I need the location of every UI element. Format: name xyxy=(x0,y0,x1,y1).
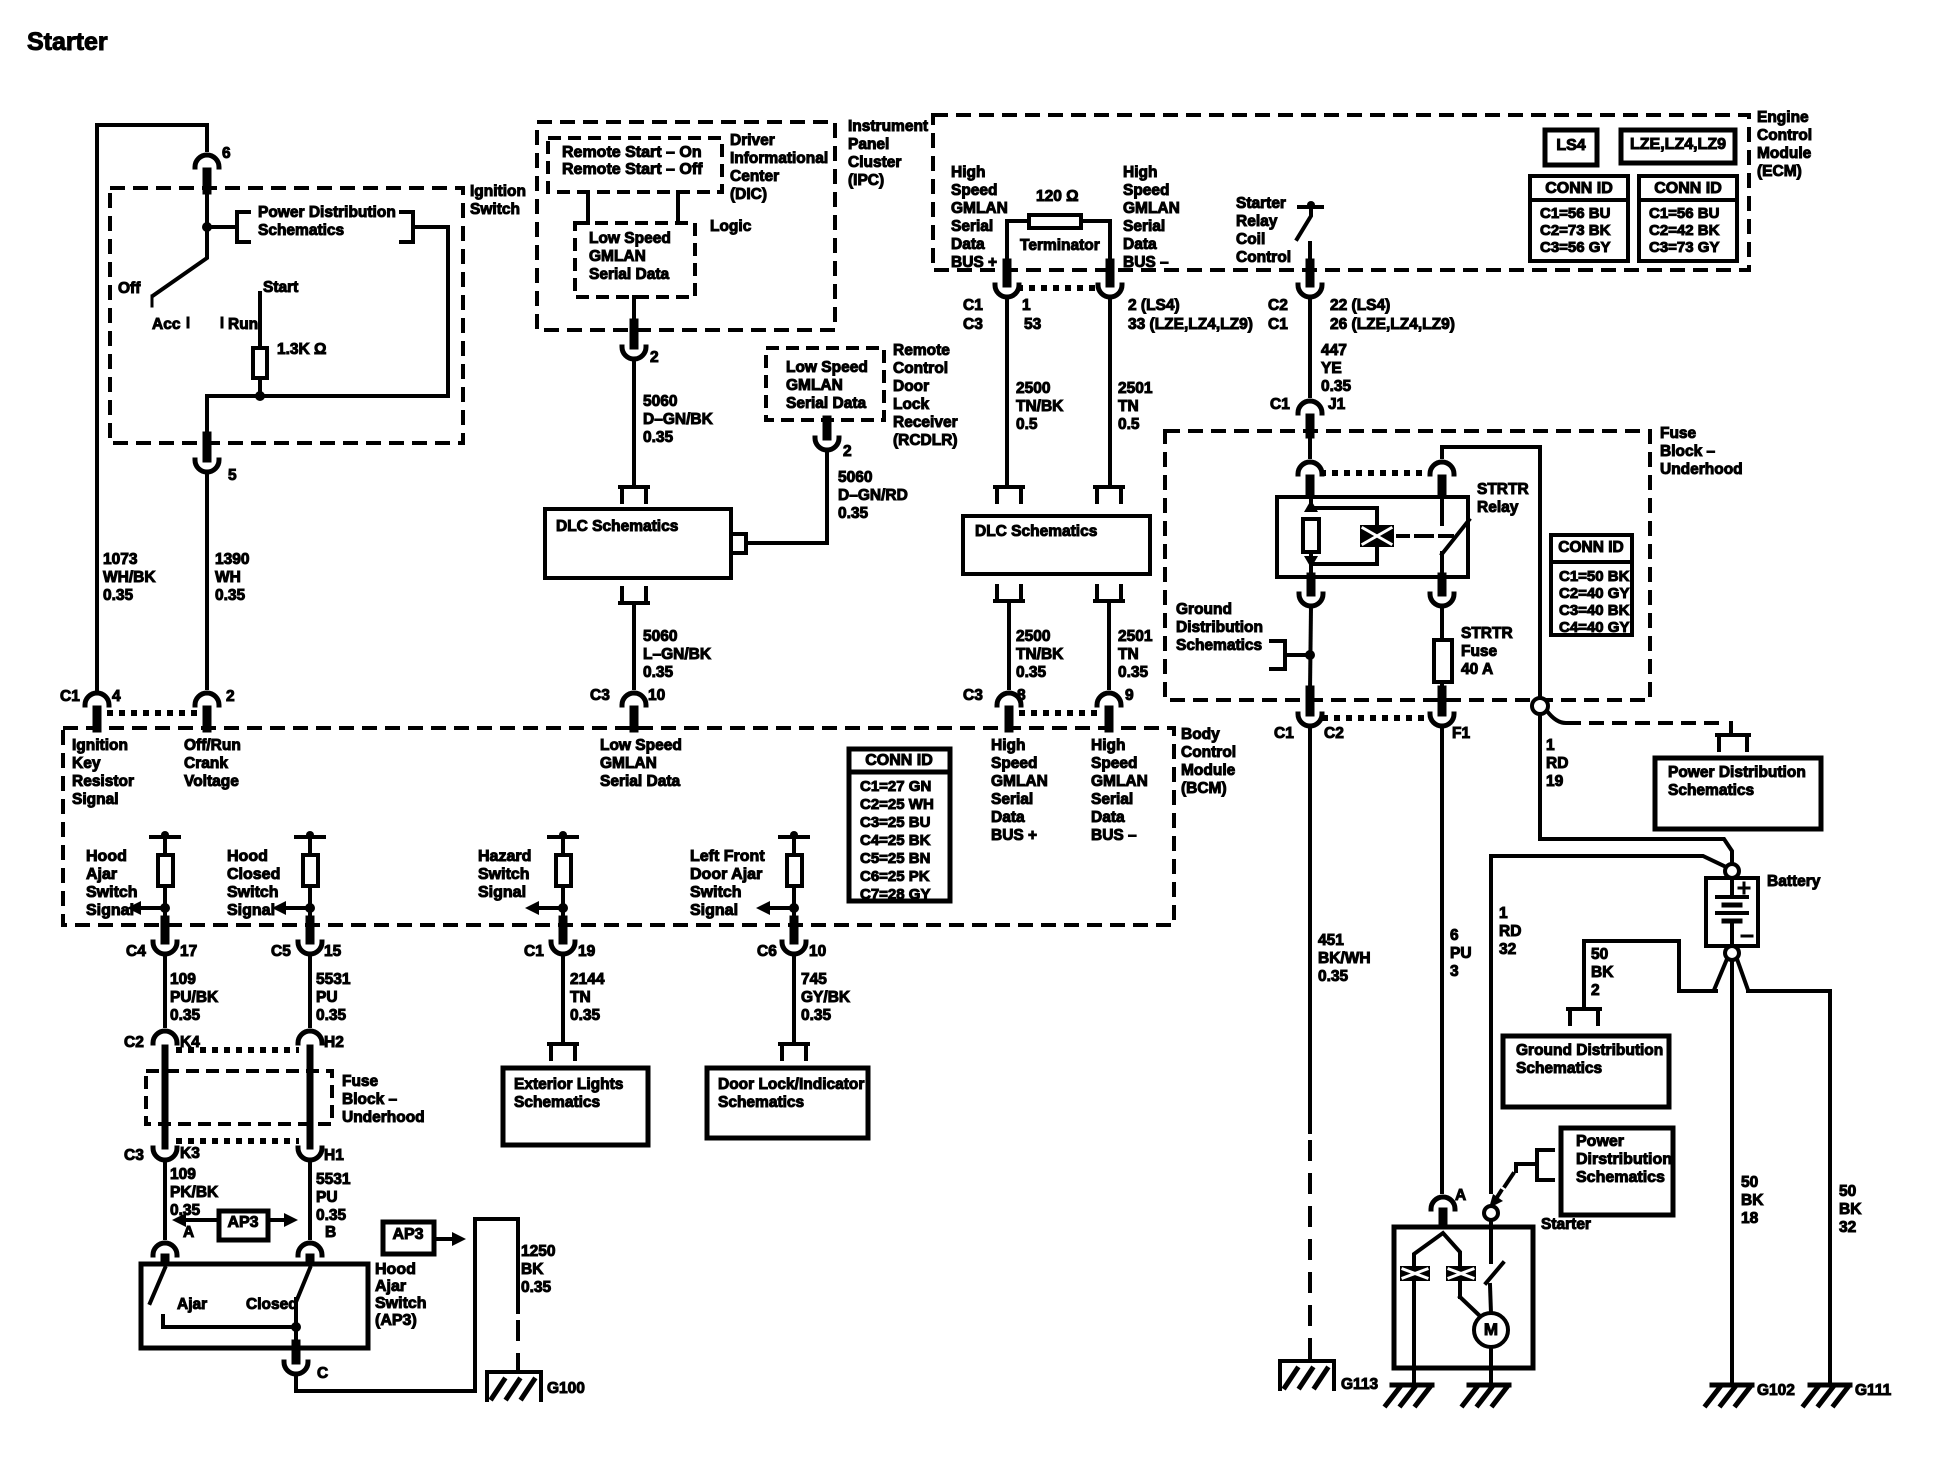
svg-text:BK: BK xyxy=(1839,1201,1862,1218)
component LS4 tag box xyxy=(1545,130,1597,165)
svg-text:Block –: Block – xyxy=(342,1091,398,1108)
wire 2144 TN xyxy=(561,955,565,1044)
svg-text:PU: PU xyxy=(316,989,338,1006)
svg-text:K3: K3 xyxy=(180,1145,200,1162)
resistor left front door ajar switch signal xyxy=(780,835,808,839)
wire bus+ inside ECM xyxy=(1005,221,1009,265)
terminal battery negative xyxy=(1725,946,1739,960)
svg-text:1: 1 xyxy=(1546,737,1555,754)
wire winding to contact dashes xyxy=(1398,534,1408,538)
wire contact to motor xyxy=(1490,1285,1491,1313)
body control module dashed box xyxy=(63,728,1174,925)
svg-text:2500: 2500 xyxy=(1016,628,1050,645)
wire battery feed inside fuse block xyxy=(1538,447,1542,698)
svg-text:High: High xyxy=(951,164,985,181)
svg-text:BK: BK xyxy=(521,1261,544,1278)
wire output bus xyxy=(207,394,448,398)
svg-text:C1=50 BK: C1=50 BK xyxy=(1559,568,1630,585)
node starter solenoid stud xyxy=(1484,1206,1498,1220)
svg-text:0.35: 0.35 xyxy=(215,587,246,604)
svg-text:GMLAN: GMLAN xyxy=(1091,773,1148,790)
svg-text:18: 18 xyxy=(1741,1210,1759,1227)
svg-text:Terminator: Terminator xyxy=(1020,237,1100,254)
svg-text:Schematics: Schematics xyxy=(1576,1169,1665,1186)
terminal battery positive xyxy=(1725,864,1739,878)
wire connector pair line K3-H1 xyxy=(176,1138,299,1144)
svg-text:1: 1 xyxy=(1499,905,1508,922)
connector 2 (IPC) xyxy=(630,323,639,345)
svg-text:BUS +: BUS + xyxy=(951,254,997,271)
wire 2501 TN 0.5 xyxy=(1108,298,1112,487)
svg-text:Off: Off xyxy=(118,280,141,297)
svg-text:(ECM): (ECM) xyxy=(1757,163,1802,180)
wire loop tail dashed to power distribution xyxy=(1547,711,1566,723)
connector ECM C1/C3 pin1/53 xyxy=(1003,263,1012,283)
svg-text:Remote Start – On: Remote Start – On xyxy=(562,144,702,161)
svg-text:Ignition: Ignition xyxy=(72,737,128,754)
svg-text:Low Speed: Low Speed xyxy=(786,359,868,376)
connector 6 (ignition switch) xyxy=(195,155,219,167)
svg-text:32: 32 xyxy=(1499,941,1516,958)
svg-text:(DIC): (DIC) xyxy=(730,186,767,203)
wire bracket to right rail xyxy=(413,225,448,229)
wire 109 PK/BK xyxy=(163,1162,167,1238)
wire 451 BK/WH solid xyxy=(1308,728,1312,1132)
svg-text:3: 3 xyxy=(1450,963,1459,980)
svg-text:C1: C1 xyxy=(524,943,544,960)
remote control door lock receiver dashed box xyxy=(766,348,884,420)
svg-text:Key: Key xyxy=(72,755,101,772)
wire relay coil bottom xyxy=(1309,552,1313,577)
component DLC Schematics box (high speed) xyxy=(963,516,1150,574)
svg-text:C2=25 WH: C2=25 WH xyxy=(860,796,934,813)
component Power Distribution Schematics box (battery) xyxy=(1655,758,1821,829)
svg-text:TN/BK: TN/BK xyxy=(1016,398,1064,415)
svg-text:Hood: Hood xyxy=(227,848,268,865)
wire 1 RD 32 xyxy=(1491,856,1726,1192)
svg-text:C3=25 BU: C3=25 BU xyxy=(860,814,930,831)
svg-text:2501: 2501 xyxy=(1118,628,1153,645)
connector H2 xyxy=(298,1031,322,1043)
svg-text:PK/BK: PK/BK xyxy=(170,1184,219,1201)
svg-text:Fuse: Fuse xyxy=(342,1073,379,1090)
switch ignition blade (to Off) xyxy=(154,227,207,295)
svg-text:Panel: Panel xyxy=(848,136,889,153)
connector C6 pin 10 xyxy=(790,920,799,940)
wire Start contact xyxy=(258,293,262,348)
svg-text:TN/BK: TN/BK xyxy=(1016,646,1064,663)
svg-text:Underhood: Underhood xyxy=(342,1109,425,1126)
wire 50 BK 18 to G102 xyxy=(1730,960,1734,1381)
svg-text:RD: RD xyxy=(1499,923,1521,940)
connector hood switch A xyxy=(153,1243,177,1255)
resistor relay coil xyxy=(1303,519,1319,552)
connector hood switch C xyxy=(292,1344,301,1360)
wire right rail down xyxy=(446,227,450,396)
contact Run tick xyxy=(221,318,224,327)
svg-text:Start: Start xyxy=(263,279,298,296)
svg-text:Starter: Starter xyxy=(1236,195,1286,212)
svg-text:Low Speed: Low Speed xyxy=(589,230,671,247)
svg-text:109: 109 xyxy=(170,1166,196,1183)
svg-text:YE: YE xyxy=(1321,360,1342,377)
svg-text:15: 15 xyxy=(324,943,342,960)
svg-text:1073: 1073 xyxy=(103,551,138,568)
svg-text:F1: F1 xyxy=(1452,725,1470,742)
svg-text:1250: 1250 xyxy=(521,1243,555,1260)
svg-text:BK/WH: BK/WH xyxy=(1318,950,1371,967)
svg-text:Schematics: Schematics xyxy=(514,1094,600,1111)
wire pin6 to junction xyxy=(205,190,209,227)
connector F1 xyxy=(1438,690,1447,712)
grommet loop fuse block xyxy=(1532,698,1548,714)
wire terminator left lead xyxy=(1007,219,1029,223)
svg-text:Serial: Serial xyxy=(1091,791,1133,808)
svg-text:40 A: 40 A xyxy=(1461,661,1493,678)
svg-text:C2: C2 xyxy=(1268,297,1288,314)
wire 1250 BK path xyxy=(296,1219,518,1391)
component Power Dirstribution Schematics box (starter) xyxy=(1561,1128,1673,1215)
connector C1 pin 2 (BCM) xyxy=(195,693,219,705)
wire relay coil top xyxy=(1309,497,1313,506)
switch starter contact blade xyxy=(1486,1263,1503,1283)
svg-text:C4: C4 xyxy=(126,943,146,960)
connector relay switch bottom xyxy=(1438,577,1447,592)
svg-text:Exterior Lights: Exterior Lights xyxy=(514,1076,623,1093)
svg-text:BK: BK xyxy=(1591,964,1614,981)
bracket DLC2 output left xyxy=(995,586,1023,601)
svg-text:J1: J1 xyxy=(1328,396,1346,413)
svg-text:Relay: Relay xyxy=(1477,499,1519,516)
svg-text:Door Lock/Indicator: Door Lock/Indicator xyxy=(718,1076,864,1093)
ground G102 xyxy=(1712,1383,1752,1388)
svg-text:451: 451 xyxy=(1318,932,1344,949)
wire battery negative fan right xyxy=(1737,959,1748,990)
svg-text:Switch: Switch xyxy=(690,884,742,901)
svg-text:Lock: Lock xyxy=(893,396,930,413)
wire 745 GY/BK xyxy=(792,955,796,1044)
svg-text:Starter: Starter xyxy=(27,28,108,56)
svg-text:Speed: Speed xyxy=(951,182,998,199)
relay coil arrow up xyxy=(1304,500,1318,512)
svg-text:Body: Body xyxy=(1181,726,1220,743)
wire resistor to bus xyxy=(258,378,262,396)
svg-text:GMLAN: GMLAN xyxy=(1123,200,1180,217)
svg-text:CONN ID: CONN ID xyxy=(1558,539,1623,556)
wire 5060 D-GN/BK xyxy=(632,360,636,487)
svg-text:C1=56 BU: C1=56 BU xyxy=(1649,205,1719,222)
svg-text:Serial: Serial xyxy=(1123,218,1165,235)
wire 5531 PU xyxy=(308,955,312,1026)
bracket DLC2 output right xyxy=(1095,586,1123,601)
svg-text:D–GN/BK: D–GN/BK xyxy=(643,411,714,428)
svg-text:G113: G113 xyxy=(1341,1376,1378,1393)
svg-text:(AP3): (AP3) xyxy=(375,1312,417,1329)
svg-text:Receiver: Receiver xyxy=(893,414,958,431)
wire 1250 BK dashed to ground xyxy=(516,1320,520,1374)
arrow solenoid control xyxy=(1489,1194,1503,1208)
svg-text:5531: 5531 xyxy=(316,1171,351,1188)
svg-text:C1: C1 xyxy=(963,297,983,314)
svg-text:Signal: Signal xyxy=(72,791,119,808)
wire battery negative fan left xyxy=(1714,959,1727,990)
svg-text:C3=56 GY: C3=56 GY xyxy=(1540,239,1610,256)
component AP3 reference box xyxy=(219,1211,268,1240)
svg-text:Logic: Logic xyxy=(710,218,752,235)
wire common to C xyxy=(294,1327,298,1348)
svg-text:447: 447 xyxy=(1321,342,1347,359)
connector 5 (ignition switch) xyxy=(203,436,212,458)
svg-text:Closed: Closed xyxy=(246,1296,298,1313)
connector C5 pin 15 xyxy=(306,920,315,940)
svg-text:Ground: Ground xyxy=(1176,601,1232,618)
wire DIC to logic left xyxy=(586,192,590,223)
svg-text:Schematics: Schematics xyxy=(1668,782,1754,799)
wire relay switch to fuse xyxy=(1440,607,1444,640)
svg-text:4: 4 xyxy=(112,688,121,705)
svg-text:32: 32 xyxy=(1839,1219,1856,1236)
wire solenoid split xyxy=(1414,1233,1460,1266)
ground starter motor xyxy=(1469,1383,1509,1388)
svg-text:0.5: 0.5 xyxy=(1016,416,1038,433)
svg-text:GMLAN: GMLAN xyxy=(951,200,1008,217)
svg-text:Serial: Serial xyxy=(951,218,993,235)
ground G111 xyxy=(1810,1383,1850,1388)
wire logic to IPC connector xyxy=(632,297,636,332)
svg-text:C3=40 BK: C3=40 BK xyxy=(1559,602,1630,619)
svg-text:0.35: 0.35 xyxy=(1321,378,1352,395)
svg-text:C1=27 GN: C1=27 GN xyxy=(860,778,931,795)
svg-text:Battery: Battery xyxy=(1767,873,1821,890)
svg-text:Schematics: Schematics xyxy=(1516,1060,1602,1077)
svg-text:(IPC): (IPC) xyxy=(848,172,884,189)
switch hood ajar blade xyxy=(150,1268,165,1303)
svg-text:Speed: Speed xyxy=(991,755,1038,772)
svg-text:0.35: 0.35 xyxy=(1318,968,1349,985)
svg-text:Ajar: Ajar xyxy=(86,866,117,883)
svg-text:5531: 5531 xyxy=(316,971,351,988)
svg-text:2: 2 xyxy=(843,443,852,460)
svg-text:CONN ID: CONN ID xyxy=(1654,180,1722,197)
svg-text:Instrument: Instrument xyxy=(848,118,928,135)
arrow AP3 to H1 wire xyxy=(268,1218,284,1222)
battery plus sign xyxy=(1739,887,1749,890)
svg-text:0.35: 0.35 xyxy=(1016,664,1047,681)
battery minus sign xyxy=(1742,935,1752,938)
svg-text:19: 19 xyxy=(578,943,596,960)
component AP3 reference box 2 xyxy=(383,1222,434,1254)
svg-text:Dirstribution: Dirstribution xyxy=(1576,1151,1672,1168)
svg-text:Cluster: Cluster xyxy=(848,154,901,171)
svg-text:Starter: Starter xyxy=(1541,1216,1591,1233)
connector C1 pin 4 (BCM) xyxy=(85,693,109,705)
svg-text:5: 5 xyxy=(228,467,237,484)
connector relay coil bottom xyxy=(1307,577,1316,592)
svg-text:C4=25 BK: C4=25 BK xyxy=(860,832,931,849)
wire junction to power distribution bracket xyxy=(207,225,237,229)
svg-text:0.5: 0.5 xyxy=(1118,416,1140,433)
connector C4 pin 17 xyxy=(161,920,170,940)
svg-text:C2=73 BK: C2=73 BK xyxy=(1540,222,1611,239)
switch relay contact fixed xyxy=(1440,497,1444,524)
svg-text:0.35: 0.35 xyxy=(801,1007,832,1024)
svg-text:PU: PU xyxy=(1450,945,1472,962)
svg-text:Serial Data: Serial Data xyxy=(589,266,670,283)
connector C2 K4 xyxy=(153,1031,177,1043)
svg-text:Hood: Hood xyxy=(86,848,127,865)
arrow AP3 to K3 wire xyxy=(186,1218,219,1222)
svg-text:Data: Data xyxy=(991,809,1025,826)
wire 1 RD 19 to battery xyxy=(1540,714,1732,864)
connector C3 K3 xyxy=(153,1148,177,1160)
svg-text:0.35: 0.35 xyxy=(316,1207,347,1224)
svg-text:Switch: Switch xyxy=(86,884,138,901)
svg-text:Signal: Signal xyxy=(690,902,738,919)
wire hold-in to motor xyxy=(1458,1281,1462,1297)
svg-text:Resistor: Resistor xyxy=(72,773,134,790)
svg-text:GMLAN: GMLAN xyxy=(786,377,843,394)
svg-text:High: High xyxy=(991,737,1025,754)
svg-text:120 Ω: 120 Ω xyxy=(1036,188,1079,205)
svg-text:C1=56 BU: C1=56 BU xyxy=(1540,205,1610,222)
svg-text:9: 9 xyxy=(1125,687,1134,704)
table CONN ID (fuse block) xyxy=(1551,535,1632,635)
svg-text:M: M xyxy=(1484,1320,1498,1339)
svg-text:C2=40 GY: C2=40 GY xyxy=(1559,585,1629,602)
logic dashed box xyxy=(575,223,695,297)
svg-text:G111: G111 xyxy=(1855,1382,1892,1399)
svg-text:Serial: Serial xyxy=(991,791,1033,808)
svg-text:2 (LS4): 2 (LS4) xyxy=(1128,297,1180,314)
svg-text:C3: C3 xyxy=(963,316,983,333)
svg-text:BUS –: BUS – xyxy=(1091,827,1137,844)
component STRTR relay box xyxy=(1277,497,1468,577)
svg-text:STRTR: STRTR xyxy=(1477,481,1529,498)
svg-text:Ajar: Ajar xyxy=(375,1278,406,1295)
svg-text:PU: PU xyxy=(316,1189,338,1206)
svg-text:33 (LZE,LZ4,LZ9): 33 (LZE,LZ4,LZ9) xyxy=(1128,316,1253,333)
contact Acc tick xyxy=(187,318,190,327)
component hood ajar switch box xyxy=(141,1264,368,1348)
svg-text:Voltage: Voltage xyxy=(184,773,239,790)
wire 50 BK 32 path xyxy=(1748,991,1830,1381)
svg-text:10: 10 xyxy=(809,943,826,960)
wire DIC to logic right xyxy=(676,192,680,223)
svg-text:Switch: Switch xyxy=(470,201,520,218)
svg-text:TN: TN xyxy=(1118,398,1139,415)
svg-text:C3: C3 xyxy=(124,1147,144,1164)
component Door Lock/Indicator Schematics box xyxy=(707,1068,868,1138)
wire connector pair line relay xyxy=(1320,470,1432,476)
wire 5060 L-GN/BK xyxy=(632,603,636,688)
wire output down to pin 5 xyxy=(205,396,209,436)
svg-text:Speed: Speed xyxy=(1091,755,1138,772)
svg-text:Door: Door xyxy=(893,378,929,395)
motor starter M xyxy=(1474,1313,1508,1347)
svg-text:1: 1 xyxy=(1022,297,1031,314)
switch starter relay coil driver xyxy=(1299,205,1322,209)
bracket power distribution (starter) xyxy=(1537,1150,1553,1180)
connector C3 pin 9 (BCM) xyxy=(1097,693,1121,705)
wire driver to connector xyxy=(1308,243,1312,265)
contact Off tick xyxy=(151,296,154,306)
arrow AP3 to hood wire xyxy=(434,1237,452,1241)
svg-text:C4=40 GY: C4=40 GY xyxy=(1559,619,1629,636)
bracket exterior lights xyxy=(549,1044,577,1059)
svg-text:STRTR: STRTR xyxy=(1461,625,1513,642)
svg-text:CONN ID: CONN ID xyxy=(865,752,933,769)
ignition switch dashed box xyxy=(110,188,463,443)
connector ECM C2/C1 pin22/26 xyxy=(1306,263,1315,283)
svg-text:5060: 5060 xyxy=(643,628,677,645)
connector hood switch B xyxy=(298,1243,322,1255)
switch hood closed blade xyxy=(296,1268,310,1327)
ground starter solenoid xyxy=(1392,1383,1432,1388)
svg-text:5060: 5060 xyxy=(643,393,677,410)
wire 2501 TN 0.35 xyxy=(1107,601,1111,688)
svg-text:DLC Schematics: DLC Schematics xyxy=(556,518,678,535)
wire relay contact lower xyxy=(1440,553,1444,577)
bracket power distribution (battery) xyxy=(1717,735,1749,750)
svg-text:Center: Center xyxy=(730,168,779,185)
svg-text:C1: C1 xyxy=(1270,396,1290,413)
svg-text:Run: Run xyxy=(228,316,258,333)
svg-text:BUS –: BUS – xyxy=(1123,254,1169,271)
svg-text:Door Ajar: Door Ajar xyxy=(690,866,762,883)
svg-text:Block –: Block – xyxy=(1660,443,1716,460)
connector relay switch terminal xyxy=(1430,462,1454,474)
svg-text:(RCDLR): (RCDLR) xyxy=(893,432,958,449)
svg-text:H1: H1 xyxy=(324,1147,344,1164)
wire connector pair line K4-H2 xyxy=(176,1047,299,1053)
battery B+ box xyxy=(1706,878,1758,946)
connector C1 pin 19 xyxy=(559,920,568,940)
svg-text:C6=25 PK: C6=25 PK xyxy=(860,868,930,885)
bracket ground distribution schematics xyxy=(1568,1009,1600,1024)
resistor hood ajar switch signal xyxy=(151,835,179,839)
node ground distribution tap xyxy=(1305,650,1315,660)
svg-text:C3: C3 xyxy=(963,687,983,704)
svg-text:0.35: 0.35 xyxy=(170,1007,201,1024)
svg-text:C2=42 BK: C2=42 BK xyxy=(1649,222,1720,239)
svg-text:2: 2 xyxy=(650,349,659,366)
wire connector pair line C1 xyxy=(107,710,197,716)
node hood switch common xyxy=(291,1322,301,1332)
svg-text:50: 50 xyxy=(1839,1183,1856,1200)
svg-text:Ignition: Ignition xyxy=(470,183,526,200)
svg-text:BK: BK xyxy=(1741,1192,1764,1209)
resistor 1.3K ohm xyxy=(253,348,267,378)
svg-text:C1: C1 xyxy=(60,688,80,705)
svg-text:Underhood: Underhood xyxy=(1660,461,1743,478)
svg-text:C7=28 GY: C7=28 GY xyxy=(860,886,930,903)
contact ajar fixed xyxy=(163,1316,296,1327)
svg-text:0.35: 0.35 xyxy=(570,1007,601,1024)
svg-text:Schematics: Schematics xyxy=(258,222,344,239)
driver information center dashed box xyxy=(548,138,722,192)
svg-text:Switch: Switch xyxy=(227,884,279,901)
ground G113 xyxy=(1280,1361,1334,1389)
svg-text:C3: C3 xyxy=(590,687,610,704)
svg-text:G102: G102 xyxy=(1757,1382,1795,1399)
bracket door lock indicator xyxy=(780,1044,808,1059)
svg-text:C: C xyxy=(317,1365,328,1382)
connector C1 J1 (fuse block) xyxy=(1298,401,1322,413)
svg-text:Driver: Driver xyxy=(730,132,775,149)
svg-text:Control: Control xyxy=(1757,127,1812,144)
svg-text:C2: C2 xyxy=(124,1034,144,1051)
svg-text:2144: 2144 xyxy=(570,971,605,988)
